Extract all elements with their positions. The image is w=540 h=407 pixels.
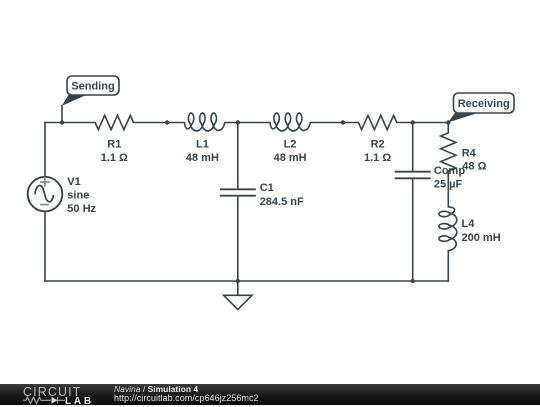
svg-text:sine: sine — [67, 189, 89, 201]
svg-text:1.1 Ω: 1.1 Ω — [364, 152, 391, 164]
svg-text:25 µF: 25 µF — [434, 178, 463, 190]
svg-text:Receiving: Receiving — [458, 98, 510, 110]
svg-text:200 mH: 200 mH — [462, 232, 501, 244]
svg-text:Comp: Comp — [434, 165, 465, 177]
svg-text:V1: V1 — [67, 176, 80, 188]
svg-text:48 Ω: 48 Ω — [462, 161, 486, 173]
svg-text:284.5 nF: 284.5 nF — [260, 196, 304, 208]
svg-text:1.1 Ω: 1.1 Ω — [101, 152, 128, 164]
svg-text:50 Hz: 50 Hz — [67, 203, 96, 215]
svg-text:L1: L1 — [196, 139, 209, 151]
svg-text:R1: R1 — [107, 139, 121, 151]
svg-text:L4: L4 — [462, 218, 476, 230]
svg-text:R4: R4 — [462, 147, 477, 159]
svg-text:C1: C1 — [260, 182, 274, 194]
svg-text:48 mH: 48 mH — [186, 152, 219, 164]
svg-text:L2: L2 — [284, 139, 297, 151]
svg-text:R2: R2 — [371, 139, 385, 151]
svg-text:48 mH: 48 mH — [274, 152, 307, 164]
svg-text:Sending: Sending — [71, 80, 114, 92]
